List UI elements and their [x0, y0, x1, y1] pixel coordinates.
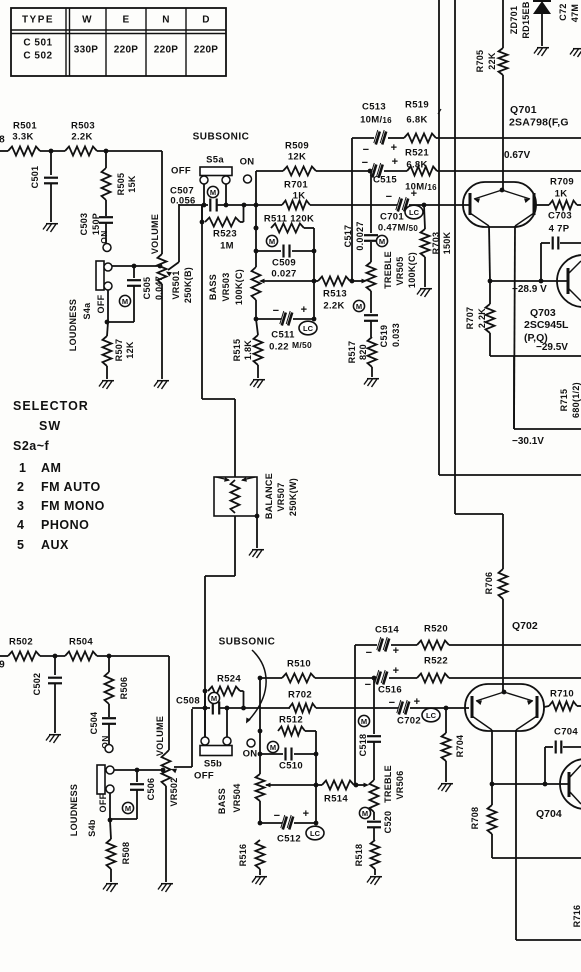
- svg-text:R524: R524: [217, 674, 241, 685]
- svg-text:R715: R715: [559, 389, 569, 412]
- capacitor C510: [260, 748, 316, 772]
- svg-text:250K(B): 250K(B): [183, 267, 193, 303]
- svg-text:S2a~f: S2a~f: [13, 439, 50, 453]
- transistor Q703: [557, 255, 581, 307]
- svg-text:LC: LC: [409, 208, 420, 217]
- resistor R514: [316, 781, 354, 805]
- svg-text:W: W: [82, 15, 92, 26]
- resistor R701: [282, 180, 310, 210]
- capacitor C512: [260, 808, 316, 830]
- switch contact to C503 (ON): [99, 230, 111, 251]
- svg-text:+: +: [393, 645, 400, 657]
- wiper of VR504: [265, 783, 316, 788]
- node line S5a to bass: [254, 171, 259, 267]
- switch S4b body: [97, 765, 105, 794]
- svg-text:R520: R520: [424, 624, 448, 635]
- svg-text:C702: C702: [397, 716, 421, 727]
- wire R703 to ground: [424, 257, 426, 287]
- wire R704 to ground: [445, 761, 447, 782]
- svg-text:C704: C704: [554, 727, 578, 738]
- svg-text:2.2K: 2.2K: [71, 132, 92, 143]
- ground R704: [438, 784, 453, 792]
- svg-text:C 502: C 502: [23, 51, 52, 62]
- label BASS VR504: [217, 783, 242, 814]
- svg-text:C509: C509: [272, 258, 296, 269]
- resistor R702: [288, 690, 398, 713]
- svg-text:ON: ON: [243, 749, 258, 760]
- resistor R521: [405, 148, 581, 176]
- wire Q702 left emitter: [491, 730, 493, 784]
- labels S5a ON OFF: [171, 155, 254, 177]
- wire R516 to ground: [259, 869, 261, 875]
- wire VR503 to C511: [254, 300, 259, 321]
- svg-text:R522: R522: [424, 656, 448, 667]
- capacitor C508: [176, 696, 219, 715]
- svg-text:−: −: [386, 191, 393, 203]
- label -30.1V: [512, 436, 544, 447]
- polarity C516: [365, 665, 400, 691]
- svg-text:R512: R512: [279, 715, 303, 726]
- svg-text:R708: R708: [470, 807, 480, 830]
- potentiometer VR504: [256, 774, 265, 801]
- svg-text:R515: R515: [232, 339, 242, 362]
- svg-text:R706: R706: [484, 572, 494, 595]
- resistor R509: [256, 141, 372, 176]
- svg-text:C518: C518: [358, 734, 368, 757]
- label SUBSONIC: [193, 132, 250, 143]
- svg-text:VR503: VR503: [221, 272, 231, 301]
- potentiometer VR503: [252, 267, 261, 300]
- motor M of VR504: [267, 741, 278, 752]
- capacitor C518: [358, 678, 381, 780]
- zener ZD701: [509, 1, 531, 39]
- potentiometer VR507 balance: [214, 477, 257, 516]
- capacitor C503: [79, 200, 113, 243]
- svg-text:680(1/2): 680(1/2): [571, 382, 581, 418]
- resistor R505: [102, 151, 138, 200]
- svg-text:VR504: VR504: [232, 783, 242, 812]
- wire R515 to ground: [257, 365, 259, 378]
- svg-text:Q703: Q703: [530, 307, 556, 319]
- svg-text:C520: C520: [383, 811, 393, 834]
- resistor R708: [470, 784, 497, 834]
- label BALANCE VR507: [264, 473, 298, 519]
- svg-text:C504: C504: [89, 712, 99, 735]
- wire Q701 right emitter: [514, 226, 515, 429]
- resistor R710: [544, 689, 581, 711]
- svg-text:SELECTOR: SELECTOR: [13, 399, 89, 413]
- svg-text:R716: R716: [572, 905, 581, 928]
- wire R706 to Q702: [502, 599, 504, 692]
- svg-text:R511 120K: R511 120K: [264, 214, 314, 225]
- motor M of S4b: [122, 802, 133, 813]
- resistor R516: [238, 840, 265, 869]
- svg-text:E: E: [123, 15, 130, 26]
- svg-text:M: M: [122, 297, 128, 306]
- resistor R517: [347, 337, 377, 367]
- resistor R703: [421, 205, 453, 257]
- svg-text:R523: R523: [213, 229, 237, 240]
- svg-text:R519: R519: [405, 100, 429, 111]
- wire R512 right leg: [314, 731, 319, 825]
- svg-text:C 501: C 501: [23, 38, 52, 49]
- label Q702: [512, 620, 538, 632]
- potentiometer VR502: [162, 753, 180, 807]
- svg-text:D: D: [202, 15, 210, 26]
- resistor R504: [65, 637, 97, 661]
- label C511: [269, 330, 312, 353]
- svg-text:−: −: [365, 679, 372, 691]
- wire Q704 base: [490, 782, 569, 787]
- wire C507 to node: [217, 203, 282, 208]
- ground C502: [46, 735, 61, 743]
- wire C701 to Q701: [420, 203, 469, 208]
- svg-text:4 7P: 4 7P: [549, 224, 570, 235]
- resistor R510: [258, 659, 372, 683]
- resistor R707: [465, 281, 495, 356]
- svg-text:1M: 1M: [220, 241, 234, 252]
- LC lamp of C701: [405, 205, 423, 219]
- svg-text:TREBLE: TREBLE: [383, 765, 393, 803]
- motor M of S4a: [119, 295, 130, 306]
- svg-text:R513: R513: [323, 289, 347, 300]
- svg-text:22K: 22K: [487, 52, 497, 70]
- potentiometer VR505: [367, 251, 418, 291]
- resistor R508: [107, 839, 132, 869]
- resistor R501: [8, 121, 40, 156]
- capacitor C515: [368, 163, 438, 193]
- capacitor C509: [256, 245, 314, 280]
- resistor R704: [442, 708, 466, 761]
- svg-text:220P: 220P: [114, 45, 139, 56]
- capacitor C502: [32, 656, 62, 733]
- svg-text:RD15EB: RD15EB: [521, 1, 531, 39]
- wire to -30.1 line: [514, 356, 581, 429]
- svg-text:LC: LC: [310, 829, 321, 838]
- svg-text:−: −: [366, 647, 373, 659]
- capacitor C506: [108, 770, 144, 822]
- svg-text:R514: R514: [324, 794, 348, 805]
- svg-text:3.3K: 3.3K: [12, 132, 33, 143]
- wire input to R501: [0, 150, 8, 152]
- svg-text:SUBSONIC: SUBSONIC: [219, 637, 276, 648]
- resistor R519: [404, 100, 581, 143]
- resistor R506: [105, 656, 130, 704]
- ground R703: [417, 289, 432, 297]
- svg-text:15K: 15K: [127, 175, 137, 193]
- wire VR504 to C512: [258, 801, 263, 825]
- wire R701 to C701: [310, 204, 397, 206]
- svg-text:C501: C501: [30, 166, 40, 189]
- svg-text:AUX: AUX: [41, 538, 69, 552]
- svg-text:FM MONO: FM MONO: [41, 499, 105, 513]
- svg-text:M: M: [361, 717, 367, 726]
- LC lamp of C702: [422, 708, 440, 722]
- capacitor C501: [30, 151, 58, 222]
- svg-text:+: +: [301, 304, 308, 316]
- svg-text:2SC945L: 2SC945L: [524, 319, 569, 331]
- svg-text:VR507: VR507: [276, 482, 286, 511]
- label LOUDNESS S4b: [69, 784, 97, 837]
- svg-text:M: M: [362, 809, 368, 818]
- label -28.9V: [512, 284, 547, 295]
- svg-text:R503: R503: [71, 121, 95, 132]
- svg-text:0.027: 0.027: [271, 269, 296, 280]
- svg-text:LC: LC: [426, 711, 437, 720]
- ground R516: [252, 877, 267, 885]
- svg-text:C502: C502: [32, 673, 42, 696]
- polarity C701: [386, 188, 418, 203]
- motor M of C518: [358, 715, 369, 726]
- svg-text:R701: R701: [284, 180, 308, 191]
- svg-text:C513: C513: [362, 102, 386, 113]
- svg-text:VR505: VR505: [395, 256, 405, 285]
- potentiometer VR501: [158, 254, 194, 303]
- switch S4a contacts: [104, 263, 112, 290]
- svg-text:47M: 47M: [570, 4, 580, 22]
- wire rail B to R706: [455, 514, 503, 569]
- svg-text:100K(C): 100K(C): [407, 252, 417, 288]
- wire rail A: [438, 0, 440, 475]
- wiper of VR501: [166, 204, 179, 277]
- svg-text:2: 2: [17, 480, 24, 494]
- svg-text:M: M: [125, 804, 131, 813]
- svg-text:SUBSONIC: SUBSONIC: [193, 132, 250, 143]
- resistor R522: [417, 656, 581, 683]
- capacitor C505: [105, 266, 141, 324]
- capacitor C507: [170, 186, 217, 212]
- capacitor C727 label: [558, 3, 580, 22]
- switch S5b ON contact: [247, 739, 255, 747]
- tick mark: [438, 109, 441, 114]
- ground R515: [250, 380, 265, 388]
- svg-text:R521: R521: [405, 148, 429, 159]
- svg-text:M: M: [356, 302, 362, 311]
- ground R517: [364, 379, 379, 387]
- resistor R511: [254, 214, 315, 233]
- svg-text:6.8K: 6.8K: [406, 160, 427, 171]
- motor M of S5b: [208, 692, 219, 703]
- svg-text:C511: C511: [271, 330, 295, 341]
- wire S4a lower contact down: [107, 290, 108, 336]
- capacitor C702: [397, 700, 421, 727]
- svg-text:R509: R509: [285, 141, 309, 152]
- svg-text:Q704: Q704: [536, 808, 562, 820]
- svg-text:+: +: [411, 188, 418, 200]
- node 9 input label: [0, 660, 5, 671]
- svg-text:1.8K: 1.8K: [243, 340, 253, 360]
- svg-text:BASS: BASS: [208, 274, 218, 300]
- svg-text:6.8K: 6.8K: [406, 115, 427, 126]
- svg-text:M: M: [270, 743, 276, 752]
- wire R507 to ground: [106, 366, 108, 379]
- label C505: [142, 276, 164, 300]
- subsonic pointer arc: [246, 650, 266, 724]
- transistor Q704: [560, 759, 581, 809]
- wire C702 to Q702: [420, 706, 469, 711]
- wire C514 left leg: [354, 645, 356, 785]
- svg-text:C701: C701: [380, 212, 404, 223]
- svg-text:0.67V: 0.67V: [504, 150, 530, 161]
- svg-text:220P: 220P: [194, 45, 219, 56]
- svg-text:R507: R507: [114, 339, 124, 362]
- svg-text:0.056: 0.056: [170, 196, 195, 207]
- wire R517 to ground: [371, 367, 373, 377]
- svg-text:+: +: [393, 665, 400, 677]
- node line S5b to bass lower: [258, 678, 263, 774]
- resistor R502: [8, 637, 40, 661]
- svg-text:AM: AM: [41, 461, 61, 475]
- label BASS VR503: [208, 269, 244, 305]
- switch S5a ON contact: [244, 175, 252, 183]
- svg-text:TYPE: TYPE: [22, 15, 54, 26]
- capacitor C703: [541, 211, 581, 282]
- switch S5b contacts: [201, 737, 231, 745]
- resistor R705: [475, 0, 508, 75]
- ground VR507: [249, 550, 264, 558]
- wire VR501 to ground: [161, 284, 163, 379]
- wire VR507 to ground: [255, 514, 260, 548]
- switch S5b body: [200, 746, 232, 756]
- svg-text:R702: R702: [288, 690, 312, 701]
- polarity C515: [362, 156, 399, 169]
- resistor R503: [65, 121, 97, 156]
- svg-text:0.47M/50: 0.47M/50: [378, 223, 419, 234]
- svg-text:C503: C503: [79, 213, 89, 236]
- label VOLUME lower: [155, 716, 165, 756]
- label SUBSONIC lower: [219, 637, 276, 648]
- svg-text:1K: 1K: [555, 189, 568, 200]
- svg-text:150K: 150K: [442, 231, 452, 254]
- capacitor C514: [355, 625, 417, 652]
- svg-text:250K(W): 250K(W): [288, 478, 298, 516]
- capacitor C520: [367, 811, 393, 840]
- motor M of VR505: [376, 235, 387, 246]
- label Q701: [509, 104, 569, 129]
- svg-text:C510: C510: [279, 761, 303, 772]
- component value table for C501/C502: [11, 8, 226, 76]
- resistor R513: [314, 277, 352, 312]
- ground ZD701: [534, 48, 549, 56]
- svg-text:+: +: [414, 696, 421, 708]
- wiper of VR502: [171, 709, 192, 773]
- capacitor C516: [372, 670, 417, 696]
- resistor R706: [484, 569, 508, 599]
- node R514/C514: [354, 783, 369, 788]
- wire Q702 right emitter: [516, 730, 581, 940]
- label C506: [146, 778, 156, 801]
- svg-text:+: +: [392, 156, 399, 168]
- svg-text:−29.5V: −29.5V: [536, 342, 568, 353]
- label Q704: [536, 808, 562, 820]
- svg-text:C512: C512: [277, 834, 301, 845]
- switch S5b contact wires: [205, 708, 227, 737]
- svg-text:−: −: [363, 144, 370, 156]
- svg-text:R508: R508: [121, 842, 131, 865]
- wire R501-R503: [40, 149, 65, 154]
- svg-text:R516: R516: [238, 844, 248, 867]
- wire down to VR502: [166, 656, 169, 753]
- transistor Q701: [463, 182, 536, 227]
- svg-text:BALANCE: BALANCE: [264, 473, 274, 519]
- wire R508 to ground: [110, 869, 112, 882]
- svg-text:R501: R501: [13, 121, 37, 132]
- svg-text:−: −: [274, 810, 281, 822]
- ground R518: [367, 877, 382, 885]
- svg-text:−30.1V: −30.1V: [512, 436, 544, 447]
- polarity C513: [363, 142, 398, 156]
- svg-text:R506: R506: [119, 677, 129, 700]
- ground R507: [99, 381, 114, 389]
- svg-text:VR502: VR502: [169, 777, 179, 806]
- svg-text:BASS: BASS: [217, 788, 227, 814]
- resistor R520: [417, 624, 581, 650]
- svg-text:2.2K: 2.2K: [323, 301, 344, 312]
- polarity C514: [366, 645, 400, 659]
- svg-text:2.2K: 2.2K: [477, 308, 487, 328]
- wire rail B: [454, 0, 456, 514]
- wire down to VR501: [161, 151, 163, 254]
- svg-text:C519: C519: [379, 325, 389, 348]
- label R716: [572, 905, 581, 928]
- svg-text:−: −: [389, 697, 396, 709]
- svg-text:C517: C517: [343, 225, 353, 248]
- switch S5a contacts: [200, 176, 230, 184]
- svg-text:−28.9 V: −28.9 V: [512, 284, 547, 295]
- svg-text:OFF: OFF: [194, 771, 214, 782]
- node B input label: [0, 135, 5, 146]
- svg-text:C703: C703: [548, 211, 572, 222]
- svg-text:1K: 1K: [293, 191, 306, 202]
- svg-text:330P: 330P: [74, 45, 99, 56]
- svg-text:R707: R707: [465, 307, 475, 330]
- potentiometer VR506: [370, 765, 406, 812]
- svg-text:SW: SW: [39, 419, 61, 433]
- svg-text:VR501: VR501: [171, 270, 181, 299]
- svg-text:Q702: Q702: [512, 620, 538, 632]
- wire input to R502: [0, 655, 8, 657]
- switch contact to C504: [105, 745, 113, 753]
- motor M of VR506: [359, 807, 370, 818]
- wire R504 to VR502 corner: [97, 654, 169, 659]
- svg-text:820: 820: [358, 344, 368, 360]
- capacitor C519: [364, 291, 401, 347]
- label R715: [559, 382, 581, 418]
- switch S5a body: [200, 167, 232, 176]
- wire R708 out: [492, 834, 581, 858]
- LC lamp of C511: [299, 321, 317, 335]
- ground top right: [570, 49, 581, 57]
- wire S4a to VR501 tap: [112, 264, 162, 269]
- capacitor C513: [352, 102, 404, 145]
- svg-text:LOUDNESS: LOUDNESS: [69, 784, 79, 836]
- wire VR502 to ground: [165, 786, 167, 882]
- switch S4b contacts: [106, 766, 114, 793]
- svg-text:FM AUTO: FM AUTO: [41, 480, 101, 494]
- svg-text:OFF: OFF: [96, 294, 106, 313]
- svg-text:ZD701: ZD701: [509, 6, 519, 35]
- svg-text:0.033: 0.033: [391, 323, 401, 347]
- wire R511 right leg: [312, 228, 317, 321]
- capacitor C511: [256, 304, 314, 326]
- wire C507 node to balance: [202, 205, 235, 477]
- switch S4a body: [96, 261, 104, 290]
- svg-text:ON: ON: [99, 230, 109, 243]
- svg-text:0.22: 0.22: [269, 342, 289, 353]
- label OFF S4b: [98, 793, 108, 812]
- ground R508: [103, 884, 118, 892]
- ground VR501: [154, 381, 169, 389]
